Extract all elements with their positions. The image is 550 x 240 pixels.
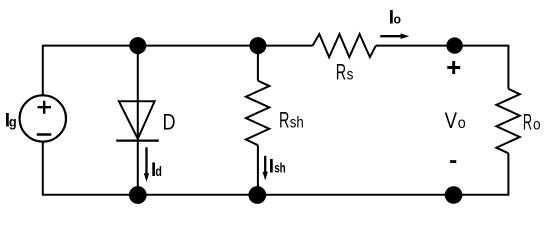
node bottom Rsh (248, 186, 266, 204)
wire Rsh branch upper (257, 46, 259, 81)
svg-text:o: o (458, 115, 466, 132)
node top diode (129, 37, 146, 54)
svg-text:D: D (163, 109, 176, 134)
svg-text:s: s (347, 67, 354, 84)
svg-text:d: d (155, 164, 162, 179)
resistor R_s (313, 34, 376, 57)
svg-text:o: o (394, 12, 402, 27)
svg-text:sh: sh (274, 160, 286, 176)
arrow Io (380, 35, 401, 37)
svg-text:sh: sh (290, 115, 304, 132)
minus sign in source (37, 133, 52, 136)
svg-text:R: R (336, 60, 346, 85)
svg-text:o: o (533, 117, 541, 134)
svg-text:R: R (279, 108, 289, 133)
minus sign output (450, 160, 456, 163)
wire Rsh branch lower (257, 145, 259, 195)
svg-text:V: V (445, 108, 458, 133)
wire top right segment (376, 46, 509, 89)
diode D triangle (119, 101, 155, 139)
node bottom diode (129, 186, 147, 204)
plus sign output (447, 61, 460, 74)
resistor R_o (496, 89, 519, 154)
svg-text:R: R (523, 110, 532, 135)
arrow Id (145, 147, 147, 174)
arrow Ish (264, 156, 266, 173)
diode D cathode bar (116, 140, 159, 142)
plus sign in source (38, 101, 52, 114)
svg-text:g: g (9, 113, 17, 129)
wire diode branch (137, 46, 139, 195)
wire top left segment (43, 46, 313, 96)
current source Ig circle (20, 95, 66, 141)
node top Rsh (249, 37, 266, 54)
resistor R_sh (246, 81, 269, 146)
node bottom output (445, 186, 463, 204)
node top output (446, 37, 462, 53)
wire right side lower, bottom, left lower (43, 142, 509, 195)
